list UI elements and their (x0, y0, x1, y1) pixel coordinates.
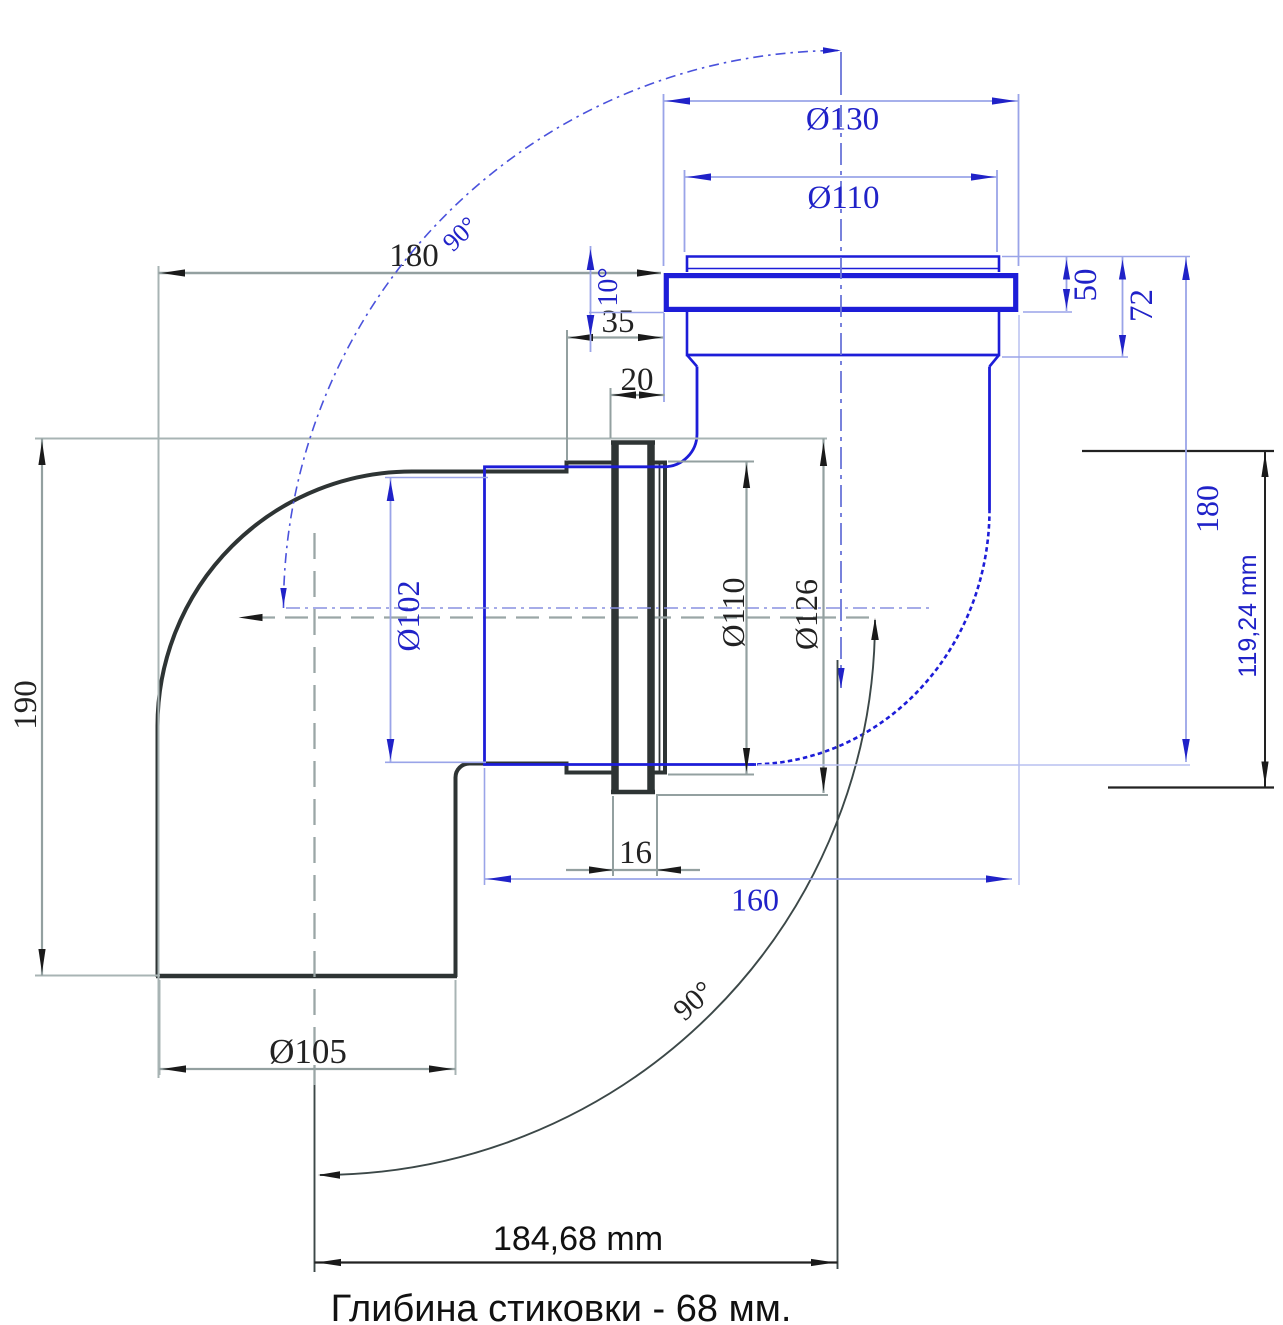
dim 160: right extension (long, from flange) (1018, 315, 1020, 885)
dim 50: flange bottom extension right (1023, 311, 1072, 313)
dim 50 (blue): dimension line (1066, 257, 1068, 311)
dim 180 right: bottom extension (758, 764, 1190, 766)
svg-text:Ø110: Ø110 (807, 180, 879, 216)
dim 160 (blue): left extension (484, 768, 486, 885)
svg-text:72: 72 (1124, 289, 1160, 322)
dim 20: left extension (610, 388, 612, 438)
spigot end inner line (659, 463, 661, 773)
dim 10deg (blue): dimension line (590, 246, 592, 352)
dim 119,24: bottom reference line (1108, 786, 1274, 788)
dim dia110: dimension line (745, 462, 747, 775)
dim dia110: bottom extension (668, 774, 754, 776)
blue chamfer left (687, 355, 697, 367)
blue chamfer right (990, 355, 1000, 367)
svg-text:184,68 mm: 184,68 mm (493, 1220, 663, 1258)
sealing ring interior mask (619, 446, 648, 789)
grey dashed vertical centerline of black part (313, 533, 315, 1085)
dim 10deg: flange-bottom extension (blue) (589, 312, 664, 314)
svg-text:190: 190 (8, 680, 44, 730)
dim 184,68: left extension (solid below centerline) (314, 1085, 316, 1272)
blue socket rim (top) (687, 257, 999, 273)
dim dia102: bottom extension (385, 761, 486, 763)
blue 90deg dash-dot arc (top) (284, 51, 842, 609)
svg-text:50: 50 (1068, 269, 1104, 302)
dim dia130: dimension line (664, 100, 1019, 102)
svg-text:180: 180 (1189, 485, 1225, 533)
dim dia102 (blue): top extension (385, 477, 488, 479)
dim 16: left extension (612, 796, 614, 876)
dim 119,24: dimension line (1264, 451, 1266, 788)
dim 16: right extension (656, 796, 658, 876)
dim dia110 top: dimension line (685, 176, 998, 178)
svg-text:Ø105: Ø105 (269, 1032, 347, 1071)
dim dia110 top (blue): left extension (684, 170, 686, 252)
svg-text:Глибина стиковки - 68 мм.: Глибина стиковки - 68 мм. (331, 1288, 792, 1325)
dim 184,68: dimension line (315, 1261, 838, 1263)
dim 72: collar bottom extension right (1002, 356, 1128, 358)
dim 190: top extension line (shared with dia126) (35, 438, 827, 440)
dim dia110 (rotated): top extension (668, 461, 754, 463)
dim dia105: right extension (455, 980, 457, 1075)
sealing ring top and bottom edges (611, 440, 655, 445)
blue dash-dot horizontal centerline y=608 (286, 607, 930, 609)
dim 35: left extension (566, 330, 568, 460)
svg-text:160: 160 (731, 882, 779, 918)
black 90deg arc (bottom) (320, 620, 875, 1175)
svg-text:Ø130: Ø130 (806, 102, 879, 138)
dim 72 (blue): dimension line (1122, 257, 1124, 357)
dim 20: right extension (blue, below flange) (663, 313, 665, 402)
dim 160: dimension line (485, 878, 1013, 880)
blue outer sweep (dashed hidden arc) (750, 510, 990, 765)
dim dia126: dimension line (822, 439, 824, 794)
dim dia102: dimension line (390, 478, 392, 763)
blue body: left wall, inner fillet, top run, mouth, bottom run (485, 367, 757, 765)
dim 35: dimension line (567, 336, 664, 338)
dim 190: bottom extension line (35, 975, 160, 977)
svg-text:Ø102: Ø102 (390, 580, 426, 651)
dim dia110 top: right extension (996, 170, 998, 252)
svg-text:Ø126: Ø126 (788, 579, 824, 650)
dim 180 right (blue): top extension (1002, 256, 1190, 258)
sealing ring on spigot: verticals (611, 441, 619, 794)
grey dashed horizontal centerline of black part (252, 616, 874, 618)
dim 119,24: top reference line (1082, 450, 1274, 452)
black elbow bottom edge (156, 974, 457, 979)
blue collar below flange (687, 312, 999, 355)
dim dia126 (rotated): bottom extension (656, 794, 828, 796)
dim 16: dimension line (566, 869, 700, 871)
dim dia105: left extension (159, 980, 161, 1075)
svg-text:Ø110: Ø110 (715, 578, 751, 648)
blue flange (thick) (666, 276, 1015, 310)
svg-text:10°: 10° (593, 267, 624, 306)
svg-text:35: 35 (602, 304, 635, 340)
dim dia105: dimension line (160, 1068, 456, 1070)
dim 190: dimension line (41, 439, 43, 976)
blue body: right wall (988, 367, 991, 511)
svg-text:20: 20 (621, 362, 654, 398)
svg-text:119,24 mm: 119,24 mm (1234, 554, 1262, 677)
blue rim inner lip line (687, 268, 999, 270)
blue dash-dot vertical centerline of socket (840, 52, 842, 95)
dim dia130: right extension (1018, 94, 1020, 266)
black elbow body outline (158, 463, 666, 978)
svg-text:16: 16 (619, 835, 652, 871)
dim 180 top: dimension line (159, 272, 662, 275)
dim 180 right: dimension line (1185, 257, 1187, 763)
dim 184,68: right extension (837, 660, 839, 1269)
dim dia130 (blue): left extension (663, 94, 665, 266)
dim 20: dimension line (611, 394, 665, 396)
svg-text:180: 180 (389, 238, 439, 274)
dim 180 top: left extension line (158, 266, 160, 1078)
